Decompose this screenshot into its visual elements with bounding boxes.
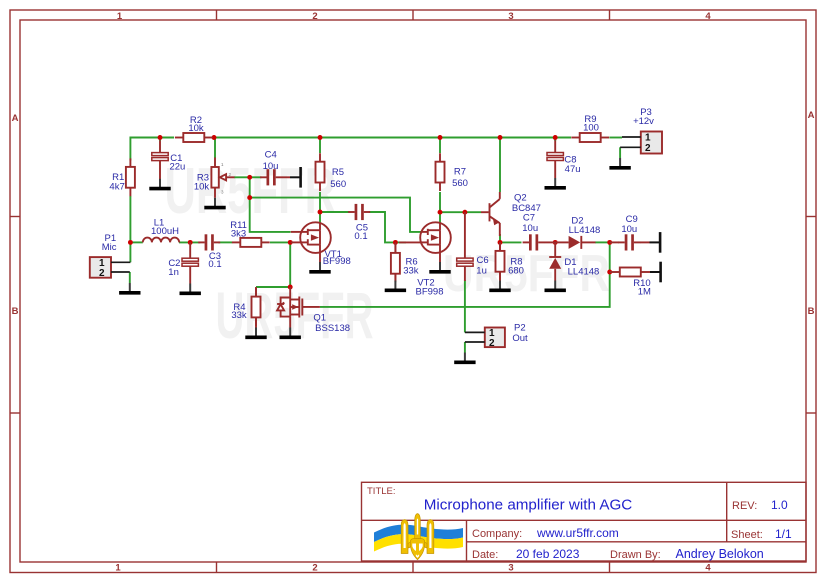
resistor R8 (496, 242, 524, 280)
wire VT2 drain stub (439, 212, 441, 222)
capacitor C8 (547, 140, 581, 178)
junction node C1 top rail (158, 135, 163, 140)
wire VT1 drain node (319, 212, 321, 223)
ground terminal C4 (290, 167, 301, 188)
connector P2 (465, 322, 528, 349)
svg-text:Mic: Mic (102, 242, 117, 253)
resistor R4 (231, 287, 260, 328)
resistor R6 (391, 242, 419, 282)
frame row tick left 2 (10, 412, 20, 414)
wire top rail to P3 (609, 137, 622, 139)
ground VT2 (429, 262, 450, 272)
potentiometer R3 (194, 158, 235, 198)
svg-text:1n: 1n (168, 267, 179, 278)
wire C8 stub (554, 138, 556, 142)
svg-text:TITLE:: TITLE: (367, 486, 396, 497)
transistor VT1 (291, 222, 351, 267)
resistor R5 (316, 153, 347, 191)
ground R8 (489, 281, 510, 291)
wire C6 bottom to P2 (464, 280, 466, 332)
ground C1 (149, 179, 170, 189)
svg-text:10k: 10k (188, 123, 204, 134)
wire Q2 collector stub (499, 138, 501, 193)
svg-text:1: 1 (117, 11, 123, 22)
junction node R2 R3 top rail (212, 135, 217, 140)
junction node VT1 G1 (288, 240, 293, 245)
wire AGC node to C4 (250, 176, 262, 178)
capacitor C5 (348, 204, 370, 242)
resistor R2 (175, 115, 213, 142)
junction node C2 (188, 240, 193, 245)
frame row tick left 1 (10, 216, 20, 218)
wire top rail main segment (214, 137, 572, 139)
wire P2 pin2 down (464, 342, 466, 353)
wire R5 top stub (319, 138, 321, 154)
junction node D2 C9 out (607, 240, 612, 245)
transistor Q2 (481, 192, 541, 236)
svg-text:BF998: BF998 (323, 256, 351, 267)
svg-text:A: A (12, 113, 19, 124)
junction node AGC row (247, 195, 252, 200)
capacitor C7 (522, 213, 555, 251)
svg-text:0.1: 0.1 (354, 231, 367, 242)
svg-text:B: B (12, 306, 19, 317)
svg-text:REV:: REV: (732, 500, 757, 512)
svg-text:1u: 1u (476, 265, 487, 276)
svg-text:33k: 33k (231, 310, 247, 321)
svg-text:BF998: BF998 (416, 287, 444, 298)
svg-text:R7: R7 (454, 166, 466, 177)
wire R10 node down and left to Q1 gate (320, 272, 610, 307)
svg-text:Company:: Company: (472, 528, 522, 540)
wire R3 top stub (214, 138, 216, 159)
svg-text:Drawn By:: Drawn By: (610, 549, 661, 561)
title block rev column line (726, 482, 728, 542)
ground P2 (454, 353, 475, 363)
resistor R11 (230, 220, 269, 247)
frame column tick bottom 1 (216, 562, 218, 573)
wire G1 node down to R4 Q1 node (289, 242, 291, 287)
wire R7 bottom to VT2 drain node (439, 192, 441, 212)
svg-text:BSS138: BSS138 (315, 323, 350, 334)
svg-text:22u: 22u (169, 162, 185, 173)
svg-text:4: 4 (705, 563, 711, 574)
wire C5 to VT2 G1 corner (369, 212, 396, 242)
svg-text:2: 2 (645, 143, 651, 154)
transistor Q1 (277, 287, 350, 334)
svg-text:1/1: 1/1 (775, 527, 792, 541)
svg-text:4k7: 4k7 (109, 181, 124, 192)
svg-text:B: B (808, 306, 815, 317)
ground VT1 (309, 262, 330, 272)
frame column tick bottom 2 (412, 562, 414, 573)
svg-text:3: 3 (508, 563, 513, 574)
wire R3 wiper to AGC node (234, 176, 250, 178)
capacitor C6 (457, 212, 489, 281)
svg-text:Sheet:: Sheet: (731, 529, 763, 541)
wire AGC down to VT1 G2 (250, 198, 291, 232)
wire AGC row to VT2 G2 corner (250, 198, 422, 232)
svg-text:100: 100 (583, 122, 599, 133)
wire R1 to P1 node (129, 196, 131, 262)
junction node R4 Q1 drain (288, 285, 293, 290)
svg-text:20 feb 2023: 20 feb 2023 (516, 547, 580, 561)
svg-text:LL4148: LL4148 (568, 267, 600, 278)
wire top rail left segment (130, 138, 174, 161)
wire node P1 to L1 (130, 241, 142, 243)
ground D1 (545, 281, 566, 291)
frame column tick top 2 (412, 10, 414, 20)
junction node Q2 collector top rail (498, 135, 503, 140)
svg-text:1M: 1M (638, 286, 651, 297)
svg-text:Q2: Q2 (514, 192, 527, 203)
title block row line 1 (362, 519, 807, 521)
junction node R3 wiper (247, 175, 252, 180)
ground C8 (545, 178, 566, 188)
wire R7 top stub (439, 138, 441, 154)
wire Q2 emitter to R8 node (499, 234, 501, 242)
wire R6 node to VT2 G1 (395, 241, 406, 243)
svg-text:+12v: +12v (633, 116, 654, 127)
svg-text:33k: 33k (403, 265, 419, 276)
svg-text:LL4148: LL4148 (569, 225, 601, 236)
frame column tick top 3 (609, 10, 611, 20)
svg-text:P2: P2 (514, 322, 526, 333)
capacitor C4 (260, 149, 290, 185)
svg-text:10k: 10k (194, 181, 210, 192)
junction node R7 VT2 drain (438, 210, 443, 215)
junction node P1 input (128, 240, 133, 245)
frame column tick bottom 3 (609, 562, 611, 573)
svg-text:Date:: Date: (472, 549, 498, 561)
capacitor C9 (610, 214, 650, 251)
svg-text:560: 560 (330, 179, 346, 190)
wire D2 to out node (595, 241, 610, 243)
logo trident (401, 514, 434, 560)
resistor R9 (571, 114, 609, 142)
svg-text:C4: C4 (265, 149, 277, 160)
resistor R10 (610, 268, 651, 298)
svg-text:47u: 47u (565, 164, 581, 175)
svg-text:R5: R5 (332, 167, 344, 178)
frame row tick right 1 (806, 216, 816, 218)
ground Q1 (280, 328, 301, 338)
ground P1 (119, 283, 140, 293)
wire P1 pin2 to ground (129, 272, 131, 283)
wire L1 to C2 node to C3 (179, 241, 200, 243)
svg-text:2: 2 (312, 563, 317, 574)
svg-text:560: 560 (452, 178, 468, 189)
ground C2 (180, 284, 201, 294)
wire C1 stub (159, 138, 161, 142)
svg-text:2: 2 (489, 338, 495, 349)
svg-text:3: 3 (508, 11, 513, 22)
svg-text:Microphone amplifier with AGC: Microphone amplifier with AGC (424, 497, 633, 514)
svg-text:1.0: 1.0 (771, 498, 788, 512)
svg-text:Out: Out (512, 333, 528, 344)
ground R3 (204, 198, 225, 208)
svg-text:100uH: 100uH (151, 226, 179, 237)
transistor VT2 (399, 222, 451, 297)
wire AGC node down (249, 177, 251, 197)
resistor R7 (436, 153, 468, 191)
resistor R1 (109, 158, 134, 196)
svg-text:1: 1 (115, 563, 121, 574)
svg-text:A: A (808, 110, 815, 121)
diode D1 (549, 242, 599, 280)
inductor L1 (143, 218, 179, 243)
wire C3 to R11 (218, 241, 232, 243)
junction node R5 C5 VT1 drain (318, 210, 323, 215)
svg-text:Andrey Belokon: Andrey Belokon (676, 547, 764, 561)
svg-text:2: 2 (312, 11, 317, 22)
svg-text:www.ur5ffr.com: www.ur5ffr.com (536, 526, 619, 540)
svg-text:10u: 10u (263, 161, 279, 172)
junction node R10 (607, 270, 612, 275)
ground terminal R10 (650, 262, 661, 283)
svg-text:3k3: 3k3 (231, 229, 246, 240)
logo ukraine flag (374, 525, 463, 552)
diode D2 (555, 215, 600, 249)
ground R4 (245, 328, 266, 338)
capacitor C1 (152, 140, 186, 179)
wire P3 pin2 down (619, 147, 621, 158)
connector P3 (620, 107, 662, 154)
svg-text:0.1: 0.1 (208, 259, 221, 270)
ground P3 (609, 158, 630, 168)
capacitor C3 (198, 234, 221, 270)
ground terminal C9 (650, 232, 661, 253)
capacitor C2 (168, 242, 198, 283)
ground R6 (385, 281, 406, 291)
title block logo cell line (466, 520, 468, 561)
frame row tick right 2 (806, 412, 816, 414)
junction node R7 top rail (438, 135, 443, 140)
svg-text:1: 1 (645, 133, 651, 144)
svg-text:2: 2 (99, 268, 105, 279)
junction node R6 VT2 G1 (393, 240, 398, 245)
wire R5 bottom to C5 node (319, 192, 321, 212)
svg-text:10u: 10u (522, 223, 538, 234)
title block row line 2 (467, 541, 807, 543)
svg-text:680: 680 (508, 265, 524, 276)
svg-text:Q1: Q1 (313, 312, 326, 323)
wire R11 to G1 node (270, 241, 290, 243)
wire C5 node right (320, 211, 350, 213)
wire out node down to R10 node (609, 242, 611, 272)
junction node Q2 emitter R8 (498, 240, 503, 245)
connector P1 (90, 233, 131, 279)
wire VT2 drain node to C6 node to Q2 base (440, 211, 481, 213)
svg-text:10u: 10u (621, 224, 637, 235)
junction node C8 top rail (553, 135, 558, 140)
junction node C6 tap (462, 210, 467, 215)
svg-text:4: 4 (705, 11, 711, 22)
junction node C7 D1 D2 (553, 240, 558, 245)
junction node R5 top rail (318, 135, 323, 140)
frame column tick top 1 (216, 10, 218, 20)
wire R8 node to C7 (500, 241, 522, 243)
wire node to R4 (256, 286, 290, 288)
title block outline (362, 482, 807, 561)
